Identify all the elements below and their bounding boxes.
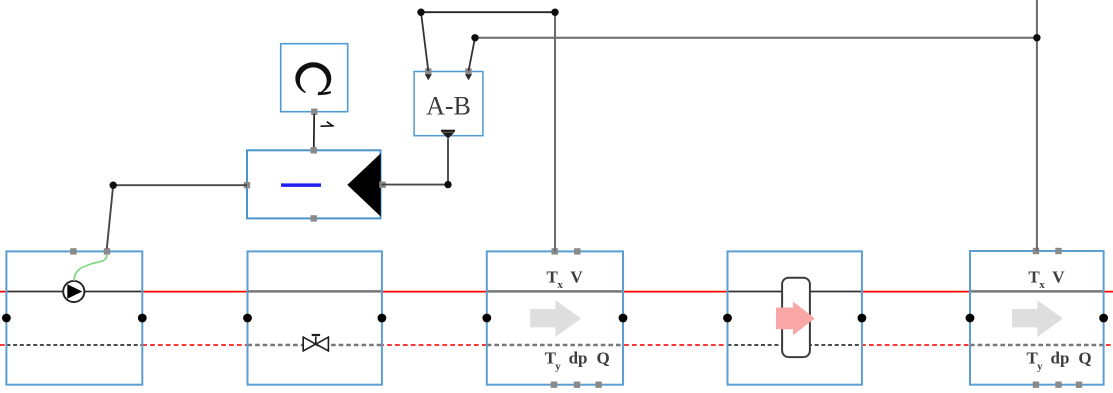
wire A-B output to controller right: [381, 184, 448, 186]
box3 label Tx V: [547, 267, 584, 291]
wire net1 vertical to box3: [554, 12, 556, 251]
wire net2 horizontal: [475, 37, 1037, 39]
box3 return pipe (thick gray dashed): [487, 344, 623, 347]
box5 label Ty dp Q: [1027, 349, 1092, 373]
junction J3: [471, 34, 478, 41]
box2 return pipe (thick gray dashed): [248, 344, 382, 347]
connector pin box1 top-left: [70, 248, 76, 254]
svg-text:V: V: [570, 267, 583, 286]
connector pin box3 bottom-2: [574, 382, 580, 388]
connector pin box3 top-2: [574, 248, 580, 254]
pump P1: [63, 281, 84, 302]
junction J4: [1033, 34, 1040, 41]
component box5: sensor unit body: [970, 251, 1104, 385]
box3 flow arrow: [530, 300, 581, 337]
speed source block (omega) border: [281, 44, 348, 112]
wire omega to controller: [313, 114, 315, 148]
wire net1 to A-B input left: [421, 12, 428, 71]
heat exchanger HX1 body: [782, 278, 810, 357]
node dot box2 right: [378, 314, 387, 323]
connector pin box3 top-1: [552, 248, 558, 254]
svg-text:y: y: [555, 361, 561, 373]
box5 return pipe (thick gray dashed): [970, 344, 1104, 347]
controller block U1 body: [247, 150, 381, 218]
wire net2 to A-B input right: [469, 38, 476, 71]
box4 border: [728, 251, 862, 384]
wire controller left horizontal: [113, 184, 247, 186]
connector pin controller bottom: [311, 215, 317, 221]
component box4: heat exchanger unit body: [728, 251, 862, 384]
node dot box3 left: [482, 314, 491, 323]
box5 supply pipe (thick gray): [970, 290, 1104, 293]
node dot box1 right: [138, 314, 147, 323]
return net (red dashed line): [0, 344, 1113, 346]
supply net (red solid line): [0, 291, 1113, 293]
svg-text:dp: dp: [1051, 349, 1070, 368]
node dot box3 right: [619, 314, 628, 323]
wire A-B output down: [447, 139, 449, 185]
wire net1 horizontal top: [421, 11, 555, 13]
omega icon: [295, 62, 331, 97]
box4 pink flow arrow: [776, 302, 815, 336]
subtract block A-B body: [414, 72, 483, 136]
box4 return pipe (dashed): [728, 344, 862, 346]
node dot box5 left: [966, 314, 975, 323]
box3 supply pipe (thick gray): [487, 290, 623, 293]
connector pin omega bottom: [311, 109, 317, 115]
box1 border: [6, 251, 142, 384]
wire controller left down to box1: [107, 185, 113, 248]
connector pin box5 bottom-3: [1076, 382, 1082, 388]
box1 return pipe (dashed): [6, 344, 142, 346]
wire net2 vertical to box5: [1036, 0, 1038, 251]
wire green pump signal: [74, 255, 107, 281]
controller black triangle: [347, 153, 380, 216]
subtract block label A-B: [426, 92, 471, 121]
junction J5: [444, 181, 451, 188]
box4 supply pipe: [728, 291, 862, 293]
box5 label Tx V: [1028, 267, 1065, 291]
connector pin box1 top-right: [104, 248, 110, 254]
component box1: pump unit body: [6, 251, 142, 384]
box3 border: [487, 251, 623, 384]
box5 border: [970, 251, 1104, 385]
node dot box4 right: [858, 314, 867, 323]
junction J1: [417, 9, 424, 16]
connector pin controller left: [244, 182, 250, 188]
component box3: sensor unit body: [487, 251, 623, 384]
box1 supply pipe: [6, 291, 142, 293]
connector pin box5 top-2: [1055, 248, 1061, 254]
connector pin controller right: [379, 182, 385, 188]
svg-text:x: x: [557, 279, 563, 291]
svg-text:A-B: A-B: [426, 92, 471, 121]
connector pin box5 bottom-2: [1055, 382, 1061, 388]
valve V1: [303, 335, 328, 351]
connector pin box5 bottom-1: [1033, 382, 1039, 388]
node dot box1 left: [2, 314, 11, 323]
box5 flow arrow: [1012, 300, 1063, 337]
svg-text:x: x: [1039, 279, 1045, 291]
box2 border: [248, 251, 382, 384]
svg-text:Q: Q: [597, 349, 610, 368]
box2 supply pipe (thick gray): [248, 290, 382, 293]
connector pin box3 bottom-1: [551, 382, 557, 388]
junction J6: [110, 182, 117, 189]
connector pin A-B input right: [465, 68, 472, 80]
connector pin box3 bottom-3: [595, 382, 601, 388]
connector pin box5 top-1: [1033, 248, 1039, 254]
harpoon annotation arrow: [321, 121, 335, 126]
controller blue minus sign: [281, 183, 321, 187]
svg-text:dp: dp: [569, 349, 588, 368]
node dot box2 left: [243, 314, 252, 323]
svg-text:Q: Q: [1078, 349, 1091, 368]
node dot box4 left: [723, 314, 732, 323]
node dot box5 right: [1099, 314, 1108, 323]
junction J2: [551, 9, 558, 16]
component box2: valve unit body: [248, 251, 382, 384]
svg-text:V: V: [1052, 267, 1065, 286]
svg-text:y: y: [1037, 361, 1043, 373]
connector pin controller top: [311, 147, 317, 153]
connector pin A-B output: [441, 130, 455, 139]
connector pin A-B input left: [425, 68, 432, 80]
box3 label Ty dp Q: [545, 349, 610, 373]
